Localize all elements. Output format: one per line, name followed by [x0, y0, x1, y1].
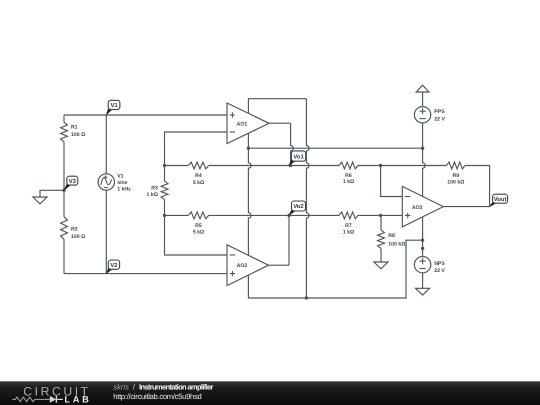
svg-text:NPS: NPS [434, 261, 445, 267]
wire AO1 - input from R3 column [165, 132, 228, 166]
ground below NPS [416, 288, 430, 295]
svg-text:sine: sine [117, 180, 127, 186]
resistor R7 [339, 212, 358, 219]
svg-text:R7: R7 [345, 223, 352, 229]
op-amp AO2 [227, 245, 269, 286]
node PPS rail junction dot [421, 147, 424, 150]
node NPS top junction dot [421, 247, 424, 250]
wire R1 bottom to V3 node [63, 142, 65, 191]
svg-text:AO1: AO1 [237, 121, 248, 127]
wire AO3 - input drop [381, 166, 403, 197]
node bottom rail junction dot [305, 296, 308, 299]
wire V1 source top [105, 115, 107, 174]
resistor R8 [378, 230, 385, 248]
svg-text:R8: R8 [388, 233, 395, 239]
wire R8 top lead [380, 215, 382, 230]
wire AO1 V- stub [247, 133, 249, 148]
wire AO3 V- to NPS [422, 240, 424, 256]
wire R2 bottom to bottom row [63, 239, 65, 273]
wire Vo2 row middle segment [209, 214, 339, 216]
node junction dot R3 top / R4 left [163, 164, 166, 167]
logo resistor zigzag [12, 397, 44, 402]
svg-text:5 kΩ: 5 kΩ [193, 230, 204, 236]
wire R3 top lead [164, 166, 166, 182]
node rail junction dot [247, 147, 250, 150]
wire VDD to PPS [422, 92, 424, 107]
wire PPS to rail [422, 123, 424, 148]
wire V1 source bottom [105, 190, 107, 273]
svg-text:1 kΩ: 1 kΩ [147, 192, 158, 198]
op-amp AO1 [227, 103, 269, 144]
wire V3 to R2 [63, 190, 65, 217]
wire PPS rail drop to AO3 V+ [423, 148, 426, 196]
wire R9 to output corner [465, 166, 490, 207]
wire Vo2 row to AO3 + input [358, 214, 402, 216]
svg-text:V2: V2 [110, 262, 118, 269]
svg-text:R4: R4 [195, 173, 202, 179]
svg-text:1 kΩ: 1 kΩ [343, 229, 354, 235]
resistor R4 [188, 162, 208, 169]
svg-text:Vo2: Vo2 [293, 203, 304, 210]
wire AO2 output ascent to Vo2 [288, 215, 290, 265]
svg-text:1 kΩ: 1 kΩ [343, 179, 354, 185]
wire NPS to ground [422, 273, 424, 288]
wire AO1 output descent to Vo1 [291, 123, 294, 165]
wire bottom row V2 node to AO2 + input [64, 273, 227, 275]
svg-text:5 kΩ: 5 kΩ [193, 180, 204, 186]
svg-text:AO2: AO2 [237, 263, 248, 269]
svg-text:V1: V1 [117, 173, 123, 179]
svg-text:22 V: 22 V [434, 116, 445, 122]
resistor R3 [161, 181, 168, 199]
wire AO2 V- stub to bottom rail [248, 275, 306, 298]
wire AO1 output [269, 122, 291, 124]
wire stub column rail down to AO2 V+ [248, 148, 251, 255]
wire AO3 output [443, 206, 489, 208]
svg-text:1 kHz: 1 kHz [117, 187, 131, 193]
node Vo1 junction dot [289, 164, 292, 167]
svg-text:22 V: 22 V [434, 268, 445, 274]
op-amp AO3 [402, 186, 443, 227]
wire AO1 V+ drop to bottom rail [306, 99, 309, 298]
node V3 junction dot [62, 189, 65, 192]
svg-text:LAB: LAB [64, 395, 90, 405]
node V3 flag [63, 183, 71, 191]
resistor R9 [447, 162, 466, 169]
svg-text:R5: R5 [195, 223, 202, 229]
node Vout flag [489, 201, 497, 207]
svg-text:100 kΩ: 100 kΩ [388, 242, 405, 248]
wire Vo1 row to R9 [358, 165, 447, 167]
svg-text:skris: skris [113, 383, 129, 392]
svg-text:100 Ω: 100 Ω [71, 234, 85, 240]
ground below R8 [374, 262, 388, 269]
wire R8 bottom lead [380, 248, 382, 262]
node junction dot R6 right [379, 164, 382, 167]
node junction dot R7 right [379, 214, 382, 217]
ground at V3 [33, 197, 47, 204]
wire top row V1 node to AO1 + input [64, 114, 227, 116]
svg-text:PPS: PPS [434, 109, 445, 115]
wire AO3 V- stub [422, 217, 424, 241]
wire ground branch at V3 [40, 190, 64, 197]
svg-text:R3: R3 [151, 185, 158, 191]
node V2 flag [106, 267, 113, 274]
node Vo1 flag [288, 159, 296, 166]
svg-text:V3: V3 [69, 178, 77, 185]
node Vo2 flag [288, 209, 296, 216]
wire Vo1 row left segment [165, 165, 189, 167]
power VDD symbol above PPS [416, 85, 429, 92]
wire Vo2 row left segment [165, 214, 189, 216]
wire AO2 output [269, 264, 290, 266]
svg-text:Vout: Vout [494, 196, 507, 203]
voltage source V1 sine [98, 174, 114, 190]
node AO3 V- junction dot [421, 239, 424, 242]
svg-text:R1: R1 [71, 125, 78, 131]
resistor R1 [61, 122, 68, 142]
svg-text:R2: R2 [71, 227, 78, 233]
wire power rail [248, 147, 422, 149]
voltage source NPS [414, 257, 430, 273]
logo diode symbol [50, 396, 56, 403]
resistor R5 [188, 212, 208, 219]
svg-text:100 Ω: 100 Ω [71, 132, 85, 138]
node Vo2 junction dot [287, 214, 290, 217]
svg-text:http://circuitlab.com/c5u9hsd: http://circuitlab.com/c5u9hsd [113, 392, 201, 401]
svg-text:V1: V1 [110, 102, 118, 109]
wire AO1 V+ loop [248, 99, 306, 114]
wire left rail R1 top lead [63, 115, 65, 122]
resistor R2 [61, 217, 68, 239]
wire bottom rail to riser [306, 240, 422, 298]
voltage source PPS [414, 107, 430, 123]
node V1 flag [106, 107, 113, 116]
svg-text:100 kΩ: 100 kΩ [447, 180, 464, 186]
wire R3 bottom lead [164, 200, 166, 216]
svg-text:R9: R9 [452, 173, 459, 179]
wire Vo1 row middle segment [209, 165, 339, 167]
svg-text:AO3: AO3 [412, 205, 423, 211]
resistor R6 [339, 162, 358, 169]
svg-text:Vo1: Vo1 [293, 153, 304, 160]
node junction dot R3 bottom / R5 left [163, 214, 166, 217]
svg-text:Instrumentation amplifier: Instrumentation amplifier [139, 383, 214, 392]
wire R3 column to AO2 - input [165, 215, 228, 255]
